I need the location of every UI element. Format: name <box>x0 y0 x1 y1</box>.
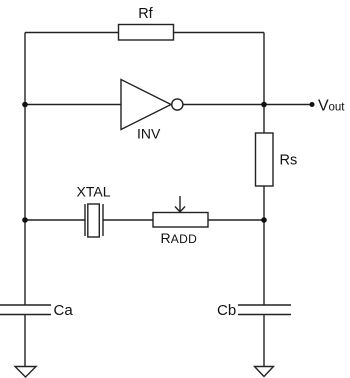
node junction (RADD / right rail) <box>261 217 267 223</box>
wire RADD to right node <box>208 219 264 221</box>
svg-text:Ca: Ca <box>54 302 74 319</box>
node junction (XTAL / left rail) <box>22 217 28 223</box>
svg-text:V: V <box>318 98 329 115</box>
op-amp U1 inverter INV <box>121 80 183 142</box>
wire node to XTAL <box>25 219 85 221</box>
resistor R_f <box>119 6 174 40</box>
wire top horizontal <box>25 32 264 34</box>
svg-text:INV: INV <box>137 126 161 142</box>
wire XTAL to RADD <box>103 219 153 221</box>
svg-text:Rf: Rf <box>138 6 153 22</box>
svg-text:XTAL: XTAL <box>77 184 111 200</box>
node junction (output / right rail) <box>261 102 267 108</box>
wire inverter output to Vout <box>183 104 312 106</box>
node junction (inverter input / left rail) <box>22 102 28 108</box>
svg-text:ADD: ADD <box>171 232 197 246</box>
svg-text:Rs: Rs <box>280 153 298 169</box>
wire right vertical upper <box>263 33 265 134</box>
resistor R_s <box>256 133 298 186</box>
wire right vertical lower (Cb to ground) <box>263 315 265 367</box>
wire right vertical middle (Rs to Cb) <box>263 186 265 305</box>
svg-text:out: out <box>329 102 346 114</box>
ground (right) <box>255 367 274 377</box>
svg-text:Cb: Cb <box>217 302 236 319</box>
capacitor C_b <box>217 302 291 319</box>
wire left vertical upper <box>24 33 26 306</box>
wire left vertical lower (Ca to ground) <box>24 315 26 367</box>
wire inverter input <box>25 104 121 106</box>
capacitor C_a <box>0 302 73 319</box>
crystal XTAL <box>77 184 111 238</box>
resistor R_ADD (adjustable) <box>153 196 208 246</box>
ground (left) <box>15 367 36 378</box>
node Vout terminal <box>310 98 346 115</box>
svg-text:R: R <box>161 230 171 246</box>
